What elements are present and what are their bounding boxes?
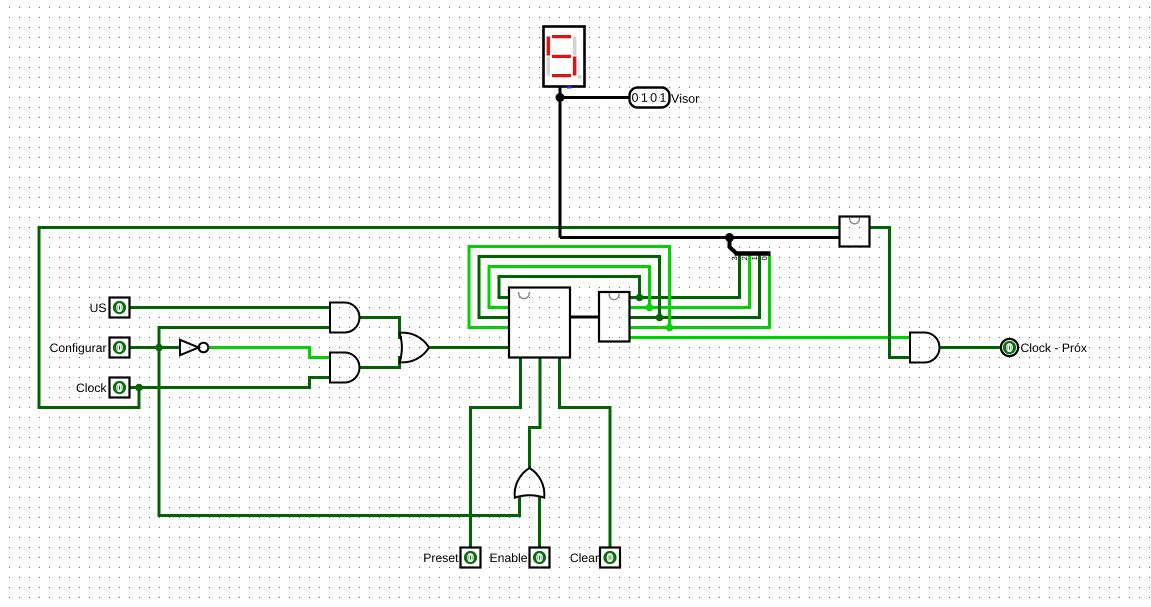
- wire: Configurar pin to NOT input: [130, 346, 181, 349]
- value digit: [642, 93, 647, 102]
- splitter bit label 3: [732, 257, 737, 261]
- pin Enable: [530, 548, 550, 568]
- label Configurar: [50, 343, 106, 354]
- label Preset: [424, 554, 458, 563]
- wire: branch to AND1 bottom input: [158, 326, 331, 329]
- 7-segment display DS1: [544, 27, 585, 89]
- wire: US pin to AND1 top input: [130, 306, 331, 309]
- OR gate G5 facing north: [515, 468, 545, 498]
- wire: bit0 row to splitter leg: [630, 255, 770, 328]
- wire: AND2 output to OR3 bottom input: [360, 358, 403, 368]
- wire: U1 to Clear pin: [560, 358, 611, 548]
- wire: bus run to U3: [560, 236, 840, 239]
- node: junction bit2: [646, 304, 654, 312]
- label Clear: [571, 553, 599, 562]
- label US: [91, 304, 106, 313]
- value digit: [632, 93, 638, 102]
- wire: U2 output to AND3 top input: [630, 336, 911, 339]
- splitter bit label 1: [752, 257, 757, 260]
- wire: OR3 output to counter U1: [430, 346, 510, 349]
- pin Preset: [461, 548, 481, 568]
- AND gate G3: [330, 353, 360, 383]
- subcircuit U2: [599, 292, 630, 342]
- pin Clock: [110, 378, 130, 398]
- NOT gate G1: [180, 340, 208, 355]
- wire: U3 output to AND3 bottom input: [870, 228, 910, 358]
- wire: bit3 loop to U1 input: [499, 277, 641, 298]
- wire: bit1 row to splitter leg: [630, 255, 760, 318]
- node: junction at Clock pin: [135, 384, 143, 392]
- node: junction bit1: [656, 314, 664, 322]
- probe Visor: [630, 88, 670, 108]
- pin US: [110, 298, 130, 318]
- wire: U1 to OR4 output: [530, 358, 541, 468]
- wire: bus branch to probe: [560, 96, 630, 99]
- wire: AND3 output to Clock-Prox pin: [940, 346, 1002, 349]
- wire: Clock loop around left edge to U3: [39, 228, 840, 408]
- output pin Clock - Prox: [1001, 339, 1018, 356]
- wire: Configurar vertical branch: [158, 326, 161, 516]
- wire: bit2 loop to U1 input: [489, 267, 651, 308]
- wire: display bus vertical: [559, 86, 562, 238]
- wire: Clock to AND2 bottom input: [139, 378, 330, 388]
- wire: bottom run to OR4 left input: [158, 497, 520, 516]
- splitter bit label 0: [762, 257, 767, 261]
- wire: bit1 loop to U1 input: [479, 257, 661, 318]
- wire: bus between U1 and U2: [570, 316, 600, 319]
- wire: NOT output to AND2 top input: [208, 348, 330, 358]
- wire: bit3 feedback vertical: [638, 277, 641, 298]
- wire: AND1 output to OR3 top input: [360, 318, 403, 338]
- subcircuit U3: [840, 217, 870, 247]
- wire: bit0 feedback vertical: [668, 247, 671, 328]
- AND gate G2: [330, 303, 360, 333]
- wire: bit3 row to splitter leg: [630, 255, 740, 298]
- pin Configurar: [110, 338, 130, 358]
- wire: bit1 feedback vertical: [658, 257, 661, 318]
- OR gate G4: [400, 333, 430, 363]
- splitter bit label 2: [742, 257, 747, 260]
- wire: Enable pin to OR4 right input: [538, 497, 541, 548]
- wire: bit2 feedback vertical: [648, 267, 651, 308]
- node: junction on Configurar wire: [155, 344, 163, 352]
- wire: bit0 loop to U1 input: [469, 247, 671, 328]
- wire: U1 to Preset pin: [471, 358, 521, 548]
- label Visor: [671, 94, 699, 103]
- wire: Clock pin stub: [130, 386, 140, 389]
- label Clock - Prox: [1021, 343, 1087, 352]
- value digit: [660, 93, 665, 102]
- node: junction bit0: [666, 324, 674, 332]
- splitter SP1: [725, 233, 771, 254]
- wire: bit2 row to splitter leg: [630, 255, 750, 308]
- label Clock: [77, 383, 107, 392]
- subcircuit U1 counter: [509, 288, 570, 358]
- AND gate G6: [910, 333, 940, 363]
- node: bus junction at probe branch: [556, 93, 565, 102]
- label Enable: [491, 553, 528, 562]
- value digit: [651, 93, 657, 102]
- node: junction bit3: [636, 294, 644, 302]
- pin Clear: [600, 548, 620, 568]
